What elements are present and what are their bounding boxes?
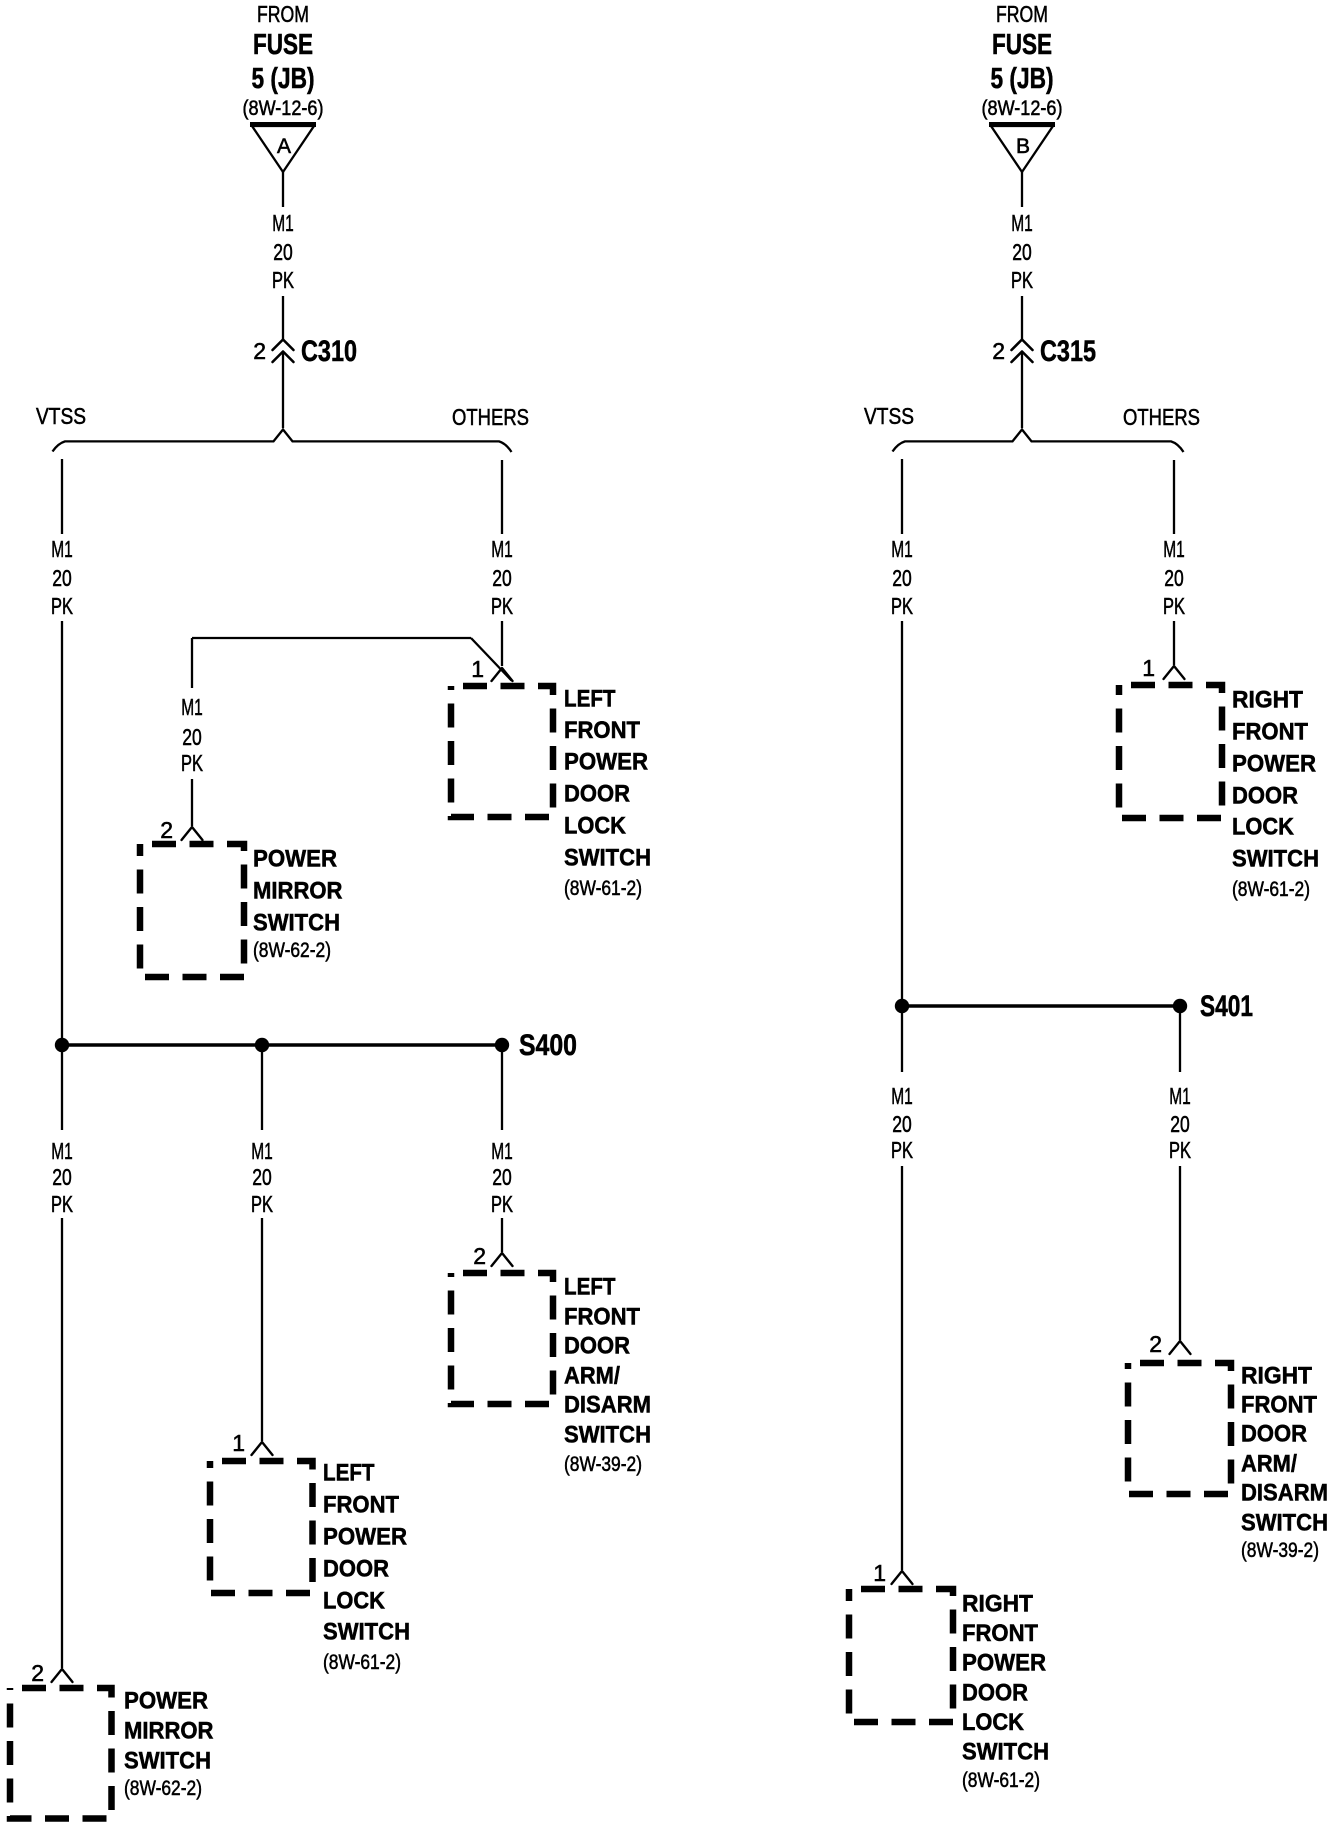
svg-text:20: 20: [52, 1164, 72, 1190]
svg-text:DISARM: DISARM: [1241, 1480, 1328, 1507]
svg-text:SWITCH: SWITCH: [124, 1748, 211, 1775]
svg-text:PK: PK: [1169, 1137, 1191, 1163]
svg-text:DOOR: DOOR: [1232, 783, 1298, 810]
svg-text:C310: C310: [301, 335, 357, 368]
svg-text:20: 20: [492, 565, 512, 591]
svg-text:2: 2: [1149, 1331, 1162, 1357]
svg-text:PK: PK: [491, 1191, 513, 1217]
svg-text:ARM/: ARM/: [564, 1363, 620, 1390]
component box right front power door lock switch (bottom): [849, 1589, 953, 1722]
svg-text:DOOR: DOOR: [1241, 1421, 1307, 1448]
svg-text:SWITCH: SWITCH: [1241, 1510, 1328, 1537]
svg-text:C315: C315: [1040, 335, 1096, 368]
svg-text:M1: M1: [251, 1138, 273, 1164]
wire: [1021, 352, 1023, 428]
svg-text:FRONT: FRONT: [323, 1492, 399, 1519]
svg-text:PK: PK: [1011, 267, 1033, 293]
svg-text:20: 20: [1164, 565, 1184, 591]
svg-text:PK: PK: [272, 267, 294, 293]
svg-text:M1: M1: [51, 536, 73, 562]
svg-text:1: 1: [232, 1430, 245, 1456]
svg-text:DOOR: DOOR: [323, 1556, 389, 1583]
svg-text:5 (JB): 5 (JB): [252, 63, 315, 95]
wire OTHERS branch down: [501, 460, 503, 534]
wire down to splice S401: [901, 621, 903, 1072]
pin chevron at right front power door lock switch (bottom): [892, 1571, 913, 1584]
pin chevron at left front door arm/disarm switch: [492, 1253, 513, 1266]
fuse source triangle B: [989, 122, 1055, 127]
svg-text:DOOR: DOOR: [962, 1679, 1028, 1706]
svg-text:FUSE: FUSE: [253, 29, 313, 61]
svg-text:LOCK: LOCK: [323, 1588, 385, 1615]
wire from triangle B: [1021, 172, 1023, 207]
svg-text:PK: PK: [51, 593, 73, 619]
wire from S400 right: [501, 1045, 503, 1130]
pin chevron at right front power door lock switch: [1164, 666, 1185, 679]
svg-text:POWER: POWER: [253, 846, 337, 873]
svg-text:2: 2: [992, 338, 1005, 364]
svg-text:SWITCH: SWITCH: [1232, 846, 1319, 873]
splice bus S400: [62, 1043, 502, 1047]
svg-text:20: 20: [892, 1111, 912, 1137]
wire down to right front power door lock switch: [901, 1166, 903, 1570]
svg-text:SWITCH: SWITCH: [253, 910, 340, 937]
svg-text:PK: PK: [181, 750, 203, 776]
svg-text:VTSS: VTSS: [36, 403, 86, 429]
wire down to splice S400: [61, 621, 63, 1130]
svg-text:PK: PK: [51, 1191, 73, 1217]
splice dot S401 right: [1173, 999, 1187, 1013]
svg-text:LOCK: LOCK: [962, 1709, 1024, 1736]
svg-text:PK: PK: [491, 593, 513, 619]
svg-text:1: 1: [1142, 655, 1155, 681]
svg-text:20: 20: [52, 565, 72, 591]
svg-text:(8W-61-2): (8W-61-2): [323, 1651, 401, 1674]
svg-text:1: 1: [873, 1560, 886, 1586]
svg-text:(8W-61-2): (8W-61-2): [962, 1769, 1040, 1792]
split brace VTSS/OTHERS (right circuit): [893, 430, 1184, 453]
inline connector C315 symbol: [1012, 340, 1033, 351]
svg-text:(8W-12-6): (8W-12-6): [243, 97, 324, 120]
svg-text:ARM/: ARM/: [1241, 1451, 1297, 1478]
splice dot S401 left: [895, 999, 909, 1013]
svg-text:DOOR: DOOR: [564, 781, 630, 808]
wire down to power mirror switch: [61, 1218, 63, 1668]
splice dot S400 middle: [255, 1038, 269, 1052]
svg-text:M1: M1: [491, 1138, 513, 1164]
split brace VTSS/OTHERS (left circuit): [53, 430, 512, 453]
svg-text:M1: M1: [891, 1083, 913, 1109]
svg-text:FRONT: FRONT: [962, 1620, 1038, 1647]
svg-text:1: 1: [471, 656, 484, 682]
svg-text:LEFT: LEFT: [564, 1274, 616, 1301]
svg-text:PK: PK: [251, 1191, 273, 1217]
wire diagonal into door lock switch pin: [471, 638, 512, 681]
svg-text:DISARM: DISARM: [564, 1392, 651, 1419]
svg-text:2: 2: [473, 1243, 486, 1269]
svg-text:RIGHT: RIGHT: [1241, 1363, 1312, 1390]
svg-text:(8W-61-2): (8W-61-2): [564, 877, 642, 900]
svg-text:2: 2: [253, 338, 266, 364]
wire VTSS branch down: [61, 459, 63, 534]
svg-text:M1: M1: [1169, 1083, 1191, 1109]
svg-text:SWITCH: SWITCH: [323, 1619, 410, 1646]
svg-text:FRONT: FRONT: [1241, 1392, 1317, 1419]
svg-text:POWER: POWER: [962, 1650, 1046, 1677]
svg-text:(8W-12-6): (8W-12-6): [982, 97, 1063, 120]
wire: [1179, 1166, 1181, 1340]
svg-text:PK: PK: [1163, 593, 1185, 619]
svg-text:2: 2: [31, 1660, 44, 1686]
svg-text:2: 2: [160, 817, 173, 843]
splice bus S401: [902, 1004, 1180, 1008]
svg-text:RIGHT: RIGHT: [1232, 687, 1303, 714]
wire: [1173, 621, 1175, 665]
wire from S400 middle: [261, 1045, 263, 1130]
wire VTSS branch down (right): [901, 459, 903, 534]
splice dot S400 left: [55, 1038, 69, 1052]
component box left front power door lock switch: [451, 686, 553, 817]
svg-text:20: 20: [492, 1164, 512, 1190]
wire: [261, 1218, 263, 1441]
svg-text:S401: S401: [1200, 990, 1253, 1023]
svg-text:5 (JB): 5 (JB): [991, 63, 1054, 95]
svg-text:(8W-61-2): (8W-61-2): [1232, 878, 1310, 901]
svg-text:FROM: FROM: [257, 1, 309, 27]
svg-text:B: B: [1016, 135, 1030, 158]
svg-text:FRONT: FRONT: [1232, 719, 1308, 746]
inline connector C310 symbol: [273, 340, 294, 351]
svg-text:PK: PK: [891, 1137, 913, 1163]
svg-text:(8W-39-2): (8W-39-2): [1241, 1539, 1319, 1562]
wire: [282, 296, 284, 339]
svg-text:VTSS: VTSS: [864, 403, 914, 429]
component box left front door arm/disarm switch: [451, 1273, 553, 1404]
svg-text:(8W-62-2): (8W-62-2): [124, 1777, 202, 1800]
svg-text:LEFT: LEFT: [564, 686, 616, 713]
svg-text:(8W-62-2): (8W-62-2): [253, 939, 331, 962]
svg-text:20: 20: [1012, 239, 1032, 265]
svg-text:POWER: POWER: [124, 1688, 208, 1715]
svg-text:M1: M1: [1011, 210, 1033, 236]
wire from S401 right: [1179, 1006, 1181, 1072]
wire: [191, 638, 193, 688]
svg-text:M1: M1: [491, 536, 513, 562]
component box power mirror switch: [140, 844, 244, 977]
svg-text:M1: M1: [51, 1138, 73, 1164]
svg-text:20: 20: [182, 724, 202, 750]
splice dot S400 right: [495, 1038, 509, 1052]
svg-text:M1: M1: [181, 694, 203, 720]
svg-text:SWITCH: SWITCH: [962, 1739, 1049, 1766]
svg-text:PK: PK: [891, 593, 913, 619]
component box power mirror switch (bottom): [10, 1688, 112, 1819]
svg-text:POWER: POWER: [323, 1524, 407, 1551]
wire: [501, 1218, 503, 1252]
wire from triangle A: [282, 172, 284, 207]
svg-text:OTHERS: OTHERS: [452, 404, 529, 430]
pin chevron at left front power door lock switch (lower): [252, 1442, 273, 1455]
pin chevron at right front door arm/disarm switch: [1170, 1341, 1191, 1354]
svg-text:20: 20: [252, 1164, 272, 1190]
svg-text:SWITCH: SWITCH: [564, 1422, 651, 1449]
svg-text:LOCK: LOCK: [564, 813, 626, 840]
wire: [501, 621, 503, 666]
component box right front door arm/disarm switch: [1128, 1363, 1231, 1494]
pin chevron at power mirror switch (bottom): [52, 1669, 73, 1682]
svg-text:OTHERS: OTHERS: [1123, 404, 1200, 430]
wire: [282, 352, 284, 428]
svg-text:M1: M1: [1163, 536, 1185, 562]
wire: [1021, 296, 1023, 339]
svg-text:RIGHT: RIGHT: [962, 1591, 1033, 1618]
svg-text:A: A: [277, 135, 291, 158]
svg-text:MIRROR: MIRROR: [253, 878, 343, 905]
svg-text:POWER: POWER: [1232, 751, 1316, 778]
svg-text:FRONT: FRONT: [564, 1304, 640, 1331]
svg-text:S400: S400: [519, 1029, 577, 1062]
svg-text:SWITCH: SWITCH: [564, 845, 651, 872]
svg-text:FRONT: FRONT: [564, 717, 640, 744]
svg-text:MIRROR: MIRROR: [124, 1718, 214, 1745]
svg-text:(8W-39-2): (8W-39-2): [564, 1453, 642, 1476]
wire OTHERS branch down (right): [1173, 460, 1175, 534]
svg-text:LOCK: LOCK: [1232, 814, 1294, 841]
svg-text:20: 20: [1170, 1111, 1190, 1137]
svg-text:FUSE: FUSE: [992, 29, 1052, 61]
svg-text:LEFT: LEFT: [323, 1460, 375, 1487]
wire branch to power mirror switch: [192, 637, 471, 639]
svg-text:M1: M1: [272, 210, 294, 236]
svg-text:20: 20: [892, 565, 912, 591]
component box left front power door lock switch (lower): [210, 1461, 313, 1593]
svg-text:POWER: POWER: [564, 749, 648, 776]
svg-text:20: 20: [273, 239, 293, 265]
svg-text:M1: M1: [891, 536, 913, 562]
wire: [191, 779, 193, 826]
pin chevron at left front power door lock switch: [492, 668, 513, 681]
svg-text:FROM: FROM: [996, 1, 1048, 27]
pin chevron at power mirror switch: [182, 827, 203, 840]
svg-text:DOOR: DOOR: [564, 1333, 630, 1360]
component box right front power door lock switch: [1119, 685, 1222, 818]
fuse source triangle A: [250, 122, 316, 127]
